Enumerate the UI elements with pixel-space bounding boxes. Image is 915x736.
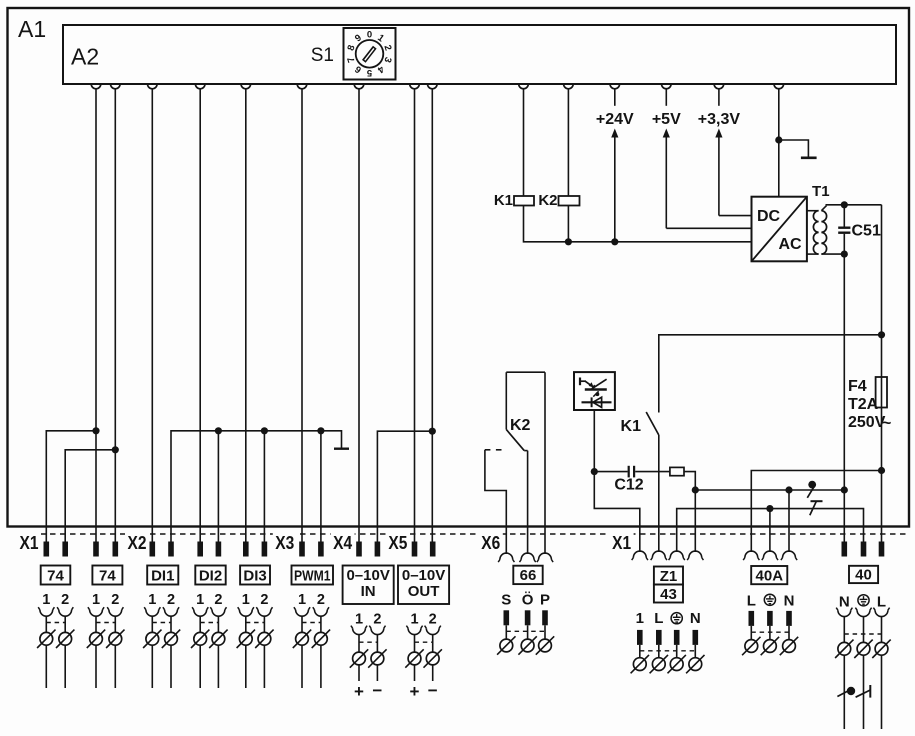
terminal pins 40	[842, 542, 848, 557]
capacitor C12	[594, 466, 670, 478]
wire DI3.2 drop	[263, 431, 265, 542]
wire jumper 74a.1 to 74b.1	[46, 431, 96, 542]
junction K2/bus	[565, 238, 572, 245]
plug sockets Z1	[633, 551, 646, 557]
label box 66	[513, 566, 542, 584]
wire A2 to X5.1	[414, 89, 416, 542]
terminal strip label X4	[331, 528, 355, 541]
svg-text:IN: IN	[361, 583, 376, 600]
svg-text:0–10V: 0–10V	[346, 567, 389, 584]
A2 pin connector for X5.1	[410, 84, 420, 89]
A2 pin connector +24V	[610, 84, 620, 89]
wires PWM1 external	[301, 616, 303, 688]
svg-text:+: +	[410, 682, 420, 701]
plug sockets X5 0-10V OUT	[408, 628, 421, 634]
junction earth/40A	[766, 505, 773, 512]
mechanical link 40	[844, 633, 881, 635]
X terminal strip dashed line	[40, 533, 908, 535]
wire A2 to X4.1	[358, 89, 360, 542]
svg-text:+5V: +5V	[652, 111, 681, 128]
thermostat contact on N line	[807, 481, 822, 516]
terminal pins DI3	[243, 542, 249, 557]
junction N/40	[841, 486, 848, 493]
terminal strip label X5	[386, 528, 410, 541]
transformer T1	[807, 206, 844, 255]
label box 40A	[751, 566, 787, 584]
terminal pins DI1	[150, 542, 156, 557]
svg-text:K2: K2	[538, 192, 557, 209]
svg-text:74: 74	[99, 568, 116, 585]
supply arrow +24V	[611, 129, 618, 138]
relay coil K1	[514, 196, 534, 206]
svg-text:0: 0	[367, 29, 372, 40]
A2 pin connector for DI3.1	[241, 84, 251, 89]
wire stub +5V	[665, 89, 667, 106]
svg-text:+24V: +24V	[596, 111, 634, 128]
fuse F4	[876, 377, 887, 408]
screw terminals X4 0-10V IN	[353, 652, 366, 665]
terminal pins 74a	[44, 542, 50, 557]
screw terminals X5 0-10V OUT	[408, 652, 421, 665]
A2 pin connector +3,3V	[714, 84, 724, 89]
signal ground bar of DI bus	[334, 448, 349, 450]
mechanical link DI1	[152, 622, 171, 624]
plug sockets 74a	[40, 610, 53, 616]
svg-text:2: 2	[111, 592, 119, 608]
junction C12 node	[591, 468, 598, 475]
svg-text:1: 1	[410, 612, 418, 628]
plug sockets 40	[838, 610, 851, 616]
A2 pin connector for 74b.2	[111, 84, 121, 89]
svg-text:L: L	[654, 610, 663, 627]
A2 pin connector for DI1.1	[148, 84, 158, 89]
wires 40A to screws	[750, 626, 752, 640]
wire A2 to DI3.1	[245, 89, 247, 542]
svg-text:X4: X4	[333, 533, 352, 553]
svg-text:+3,3V: +3,3V	[698, 111, 741, 128]
svg-text:X1: X1	[20, 533, 39, 553]
plug sockets PWM1	[296, 610, 309, 616]
wire protective earth link	[677, 509, 864, 552]
svg-text:X5: X5	[388, 533, 407, 553]
svg-text:250V: 250V	[848, 414, 886, 431]
wire A2 to 74b.2	[114, 89, 116, 542]
wire DI2.2 drop	[217, 431, 219, 542]
wire A2 to DI2.1	[199, 89, 201, 542]
mechanical link 40A	[751, 631, 789, 633]
A2 pin connector earth	[774, 84, 784, 89]
svg-text:X2: X2	[128, 533, 147, 553]
A2 pin connector for K2 coil	[564, 84, 574, 89]
mechanical link Z1	[640, 650, 696, 652]
svg-text:DC: DC	[757, 208, 781, 225]
svg-text:L: L	[747, 592, 756, 609]
plug sockets DI1	[146, 610, 159, 616]
A2 pin connector for X5.2	[428, 84, 438, 89]
wire fuse line to K1 contact	[659, 335, 882, 413]
svg-text:C12: C12	[614, 477, 643, 494]
A2 pin connector for DI2.1	[195, 84, 205, 89]
label box X4 0-10V IN	[343, 566, 394, 605]
svg-text:2: 2	[317, 592, 325, 608]
svg-text:2: 2	[167, 592, 175, 608]
svg-text:A2: A2	[71, 44, 99, 70]
wire PWM1.2 drop	[320, 431, 322, 542]
wire A2 to DI1.1	[151, 89, 153, 542]
junction 74b.2	[112, 446, 119, 453]
mechanical link 74a	[46, 622, 65, 624]
sensor box (flame/opto symbol)	[574, 372, 615, 410]
wire N return vertical	[843, 254, 845, 541]
svg-text:N: N	[839, 594, 850, 611]
terminal pins X4 0-10V IN	[356, 542, 362, 557]
svg-text:A1: A1	[18, 16, 46, 42]
label box PWM1	[292, 566, 334, 585]
mechanical link PWM1	[302, 622, 321, 624]
A2 pin connector for 74b.1	[91, 84, 101, 89]
wire A2 to K1 coil	[523, 89, 525, 196]
label box 74b	[92, 566, 122, 585]
mechanical link X5 0-10V OUT	[415, 641, 433, 643]
terminal pins X6	[504, 610, 510, 625]
svg-text:Z1: Z1	[660, 568, 678, 585]
power converter DC/AC	[752, 197, 807, 262]
supply arrow +5V	[663, 129, 670, 138]
wires X5 0-10V OUT external	[414, 635, 416, 682]
screw terminals 40A	[745, 640, 758, 653]
screw terminals 74a	[40, 632, 53, 645]
terminal strip label X1	[17, 528, 41, 541]
capacitor C51	[838, 205, 850, 254]
svg-text:40: 40	[855, 567, 872, 584]
terminal pins X5 0-10V OUT	[412, 542, 418, 557]
svg-text:−: −	[372, 681, 382, 700]
junction C51 bottom	[841, 251, 848, 258]
chassis ground symbol	[779, 140, 809, 157]
relay contact K1	[646, 412, 659, 435]
svg-text:X3: X3	[275, 533, 294, 553]
terminal strip label X1	[610, 528, 634, 541]
screw terminals DI3	[239, 632, 252, 645]
supply arrow +3,3V	[715, 129, 722, 138]
plug sockets DI2	[194, 610, 207, 616]
wire 40A L feed	[751, 471, 881, 553]
wire +5V to converter	[666, 227, 751, 229]
terminal pins 74b	[93, 542, 99, 557]
wires 74b external	[95, 616, 97, 688]
svg-text:74: 74	[47, 568, 64, 585]
label box 74a	[41, 566, 71, 585]
relay contact K2 group	[485, 372, 545, 554]
wire N distribution line	[695, 489, 844, 491]
svg-text:2: 2	[429, 612, 437, 628]
wire sensor to C12 node	[593, 410, 595, 472]
screw terminals Z1	[633, 658, 646, 671]
wire stub +3,3V	[718, 89, 720, 106]
terminal pins 40A	[749, 611, 755, 626]
svg-text:40A: 40A	[756, 568, 784, 585]
wire jumper 74a.2 to 74b.2	[65, 450, 115, 542]
terminal pins Z1	[637, 630, 643, 645]
plug sockets 40A	[745, 551, 758, 557]
A2 pin connector for PWM1.1	[297, 84, 307, 89]
resistor (series)	[670, 467, 684, 475]
plug sockets X4 0-10V IN	[353, 628, 366, 634]
rotary address switch S1	[344, 28, 396, 80]
wire A2 earth to converter top	[778, 89, 780, 197]
wire K1 contact to Z1 L	[658, 435, 660, 552]
junction PWM1.2	[317, 427, 324, 434]
label box DI1	[147, 566, 178, 585]
junction N/Z1	[692, 486, 699, 493]
wire common DI1.2/DI2.2/DI3.2/PWM1.2 bus	[171, 431, 342, 542]
wire Z1 N drop	[694, 490, 696, 552]
wire resistor to N node	[684, 472, 695, 490]
wire stub +24V	[614, 89, 616, 106]
svg-text:1: 1	[298, 592, 306, 608]
A2 pin connector for X4.1	[354, 84, 364, 89]
wire A2 to 74b.1	[95, 89, 97, 542]
svg-text:S: S	[501, 591, 511, 608]
svg-text:1: 1	[242, 592, 250, 608]
wires Z1 to screws	[639, 645, 641, 658]
junction 74b.1	[92, 427, 99, 434]
label box DI2	[195, 566, 225, 585]
screw terminals DI2	[194, 632, 207, 645]
mechanical link DI3	[246, 622, 265, 624]
screw terminals 74b	[90, 632, 103, 645]
wire 40A N drop	[788, 490, 790, 552]
junction +24V/bus	[611, 238, 618, 245]
A2 pin connector +5V	[662, 84, 672, 89]
svg-text:Ö: Ö	[522, 591, 534, 608]
svg-text:N: N	[784, 592, 795, 609]
screw terminals DI1	[146, 632, 159, 645]
terminal strip label X2	[125, 528, 149, 541]
wires DI3 external	[245, 616, 247, 688]
junction C51 top	[841, 201, 848, 208]
A2 pin connector for K1 coil	[519, 84, 529, 89]
wire 40A earth drop	[769, 509, 771, 552]
terminal pins PWM1	[299, 542, 305, 557]
wires X6 to screws	[505, 625, 507, 639]
svg-text:K1: K1	[494, 192, 513, 209]
svg-text:66: 66	[520, 567, 537, 584]
mechanical link 74b	[96, 622, 115, 624]
wire A2 to X5.2	[431, 89, 433, 542]
wires 74a external	[45, 616, 47, 688]
mechanical link X6	[506, 630, 545, 632]
svg-text:1: 1	[42, 592, 50, 608]
wire fused mains vertical	[881, 205, 883, 542]
svg-text:N: N	[690, 610, 701, 627]
junction DI3.2	[261, 427, 268, 434]
svg-text:5: 5	[366, 67, 372, 78]
junction L/fuse line	[878, 467, 885, 474]
wire T1 secondary top to fuse line	[826, 204, 882, 206]
svg-text:DI2: DI2	[199, 568, 222, 585]
screw terminals X6	[500, 639, 513, 652]
plug sockets 74b	[90, 610, 103, 616]
terminal strip label X6	[479, 528, 503, 541]
svg-text:OUT: OUT	[408, 583, 440, 600]
svg-text:2: 2	[61, 592, 69, 608]
wire A2 to K2 coil	[567, 89, 569, 196]
junction earth branch	[775, 136, 782, 143]
label box 40	[849, 566, 878, 583]
wire jumper X4.2 to X5.2	[377, 431, 432, 541]
svg-text:PWM1: PWM1	[294, 568, 331, 585]
svg-text:−: −	[428, 681, 438, 700]
screw terminals PWM1	[296, 632, 309, 645]
svg-text:K2: K2	[510, 417, 531, 434]
wire +3,3V to converter	[719, 215, 752, 217]
wire K2 coil to bus	[567, 206, 569, 242]
svg-text:2: 2	[260, 592, 268, 608]
controller module A2 box	[63, 25, 896, 84]
label box X5 0-10V OUT	[398, 566, 449, 605]
svg-text:AC: AC	[778, 236, 802, 253]
svg-text:T1: T1	[812, 183, 830, 200]
svg-text:+: +	[354, 682, 364, 701]
wires DI1 external	[151, 616, 153, 688]
svg-text:DI1: DI1	[151, 568, 174, 585]
wire A2 to PWM1.1	[301, 89, 303, 542]
relay coil K2	[559, 196, 580, 206]
svg-text:1: 1	[355, 612, 363, 628]
svg-text:~: ~	[882, 415, 891, 432]
wire sensor node to Z1 terminal 1	[594, 472, 640, 552]
wires 40 external	[843, 616, 845, 729]
svg-text:K1: K1	[621, 418, 642, 435]
label box 43	[654, 585, 683, 603]
board A1 outline	[8, 8, 910, 527]
wire K1 coil to AC/DC input bus	[524, 206, 752, 242]
mains switch	[837, 685, 870, 698]
svg-text:1: 1	[636, 610, 644, 627]
svg-text:DI3: DI3	[243, 568, 266, 585]
terminal pins DI2	[197, 542, 203, 557]
mechanical link DI2	[200, 622, 218, 624]
junction N/40A	[785, 486, 792, 493]
svg-text:2: 2	[373, 612, 381, 628]
junction X5.2	[429, 428, 436, 435]
svg-text:1: 1	[148, 592, 156, 608]
wires X4 0-10V IN external	[358, 635, 360, 682]
svg-text:F4: F4	[848, 378, 867, 395]
svg-text:C51: C51	[852, 223, 881, 240]
svg-text:X1: X1	[612, 533, 631, 553]
plug sockets DI3	[239, 610, 252, 616]
svg-text:43: 43	[660, 586, 677, 603]
svg-text:X6: X6	[481, 533, 500, 553]
mechanical link X4 0-10V IN	[359, 641, 377, 643]
label box Z1	[654, 567, 683, 585]
svg-text:P: P	[540, 591, 550, 608]
svg-text:0–10V: 0–10V	[402, 567, 445, 584]
wires DI2 external	[199, 616, 201, 688]
screw terminals 40	[838, 642, 851, 655]
svg-text:L: L	[877, 594, 886, 611]
label box DI3	[240, 566, 270, 585]
svg-text:2: 2	[214, 592, 222, 608]
plug sockets X6	[500, 553, 513, 559]
junction at fuse line	[878, 331, 885, 338]
svg-text:1: 1	[92, 592, 100, 608]
terminal strip label X3	[273, 528, 297, 541]
junction DI2.2	[215, 427, 222, 434]
svg-text:S1: S1	[311, 45, 334, 66]
svg-text:T2A: T2A	[848, 396, 879, 413]
svg-text:1: 1	[196, 592, 204, 608]
